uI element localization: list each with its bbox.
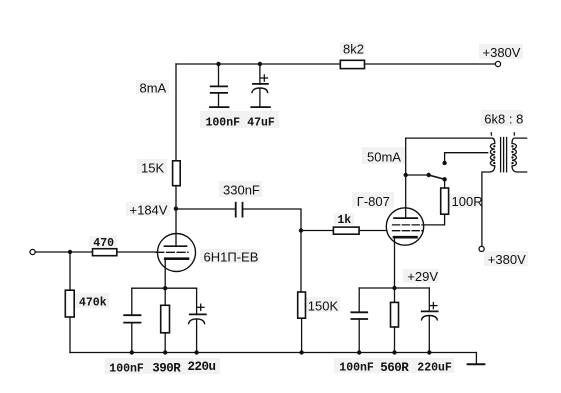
wire contact B to UL tap [445,153,488,163]
capacitor 100nF (V1 cathode) [124,288,140,352]
svg-text:+380V: +380V [483,45,521,60]
switch S1 contact B [442,161,446,165]
svg-text:15K: 15K [141,160,164,175]
node dots on bottom rail [130,350,134,354]
tube V2 anode plate [394,217,417,219]
node cathode V2 [392,286,396,290]
svg-text:470: 470 [93,237,114,250]
svg-text:50mA: 50mA [367,150,401,165]
svg-text:470k: 470k [79,297,107,310]
svg-text:100nF: 100nF [109,362,144,375]
capacitor 47uF (electrolytic) [251,64,270,107]
transformer T1 secondary winding [512,138,527,172]
resistor 100R [441,188,449,214]
wire grid node to 1k [301,230,333,232]
wire 1k to V2 grid [359,230,386,232]
tube V1 anode plate [165,245,187,247]
wire coupling cap to grid node [243,209,301,231]
svg-text:220u: 220u [188,360,216,374]
resistor 1k [333,227,359,234]
transformer phase dot secondary [513,133,515,135]
wire 470 to V1 grid [117,251,158,253]
wire top rail left segment [176,63,340,65]
capacitor 100nF (top decoupling) [210,64,229,107]
wire input to 470 [35,251,92,253]
capacitor 330nF [236,203,243,217]
wire top rail right segment [365,63,495,65]
wire cathode bus V2 [359,287,429,289]
svg-text:8mA: 8mA [140,81,167,96]
wire V2 anode vertical [405,138,407,218]
svg-text:150K: 150K [308,299,339,314]
svg-text:220uF: 220uF [417,362,452,375]
wire cathode bus V1 [132,287,197,289]
wire V2 cathode lead [394,237,396,288]
resistor 150K [298,292,306,318]
transformer T1 primary knots [493,145,495,164]
svg-text:390R: 390R [152,362,181,376]
wire switch common to 100R [444,179,446,188]
tube V1 grid (dashed) [156,251,188,253]
wire 100R to V2 screen [424,214,445,225]
wire anode node to switch contact [406,174,429,176]
tube V2 cathode [394,236,417,239]
transformer phase dot primary [490,133,492,135]
node +184V [174,207,178,211]
svg-text:100nF: 100nF [339,362,374,375]
tube V2 G-807 envelope [386,208,423,245]
node input junction [68,250,72,254]
tube V2 control grid g1 (dashed) [393,230,423,232]
wire left vertical upper [175,64,177,161]
capacitor 220uF (electrolytic) [422,288,438,353]
tube V1 6N1P-EV envelope [158,234,196,272]
tube V1 cathode [165,257,188,260]
node cathode V1 [163,286,167,290]
resistor 8k2 [340,60,364,68]
junction dot top cap 100nF [216,62,220,66]
terminal input [30,249,35,254]
tube V2 screen grid g2 (dashed) [393,224,423,226]
transformer T1 primary winding [482,138,495,246]
wire grid node down to 150K [300,231,302,293]
resistor 15K [173,161,181,186]
wire bottom rail [70,352,476,354]
ground [475,353,477,365]
resistor 470k [65,290,74,317]
resistor 390R [161,288,170,352]
wire 150K to bottom rail [301,318,303,352]
terminal +380V top [495,61,500,66]
svg-text:1k: 1k [337,214,351,227]
wire V1 cathode lead [164,259,166,289]
resistor 560R [391,288,399,353]
svg-text:6k8 : 8: 6k8 : 8 [484,112,523,127]
wire input node down to 470k [69,252,71,290]
svg-text:100R: 100R [452,194,483,209]
capacitor 100nF (V2 cathode) [351,288,367,353]
wire anode to transformer primary top [406,137,493,139]
node anode V2 [404,173,408,177]
resistor 470 [93,249,117,256]
terminal +380V bottom [479,246,484,251]
svg-text:+184V: +184V [130,202,168,217]
junction dot top cap 47uF [258,62,262,66]
svg-text:47uF: 47uF [247,116,275,129]
svg-text:560R: 560R [380,361,409,375]
wire +184V node to coupling cap [176,208,235,210]
node grid V2 [299,228,303,232]
svg-text:8k2: 8k2 [343,42,364,57]
svg-text:330nF: 330nF [223,183,260,198]
switch S1 blade [429,175,445,179]
switch S1 common dot [442,177,446,181]
svg-text:6Н1П-ЕВ: 6Н1П-ЕВ [204,249,259,264]
svg-text:+29V: +29V [407,269,438,284]
wire left vertical lower (anode lead V1) [175,186,177,247]
switch S1 contact A [427,173,431,177]
svg-text:Г-807: Г-807 [357,194,390,209]
transformer T1 secondary knots [511,145,513,164]
capacitor 220u (electrolytic) [189,288,206,352]
transformer T1 core [500,138,502,172]
svg-text:+380V: +380V [488,252,526,267]
svg-text:100nF: 100nF [206,116,241,129]
wire 470k to bottom rail [69,317,71,353]
background halos (jpeg-noise approximation) [75,42,528,374]
